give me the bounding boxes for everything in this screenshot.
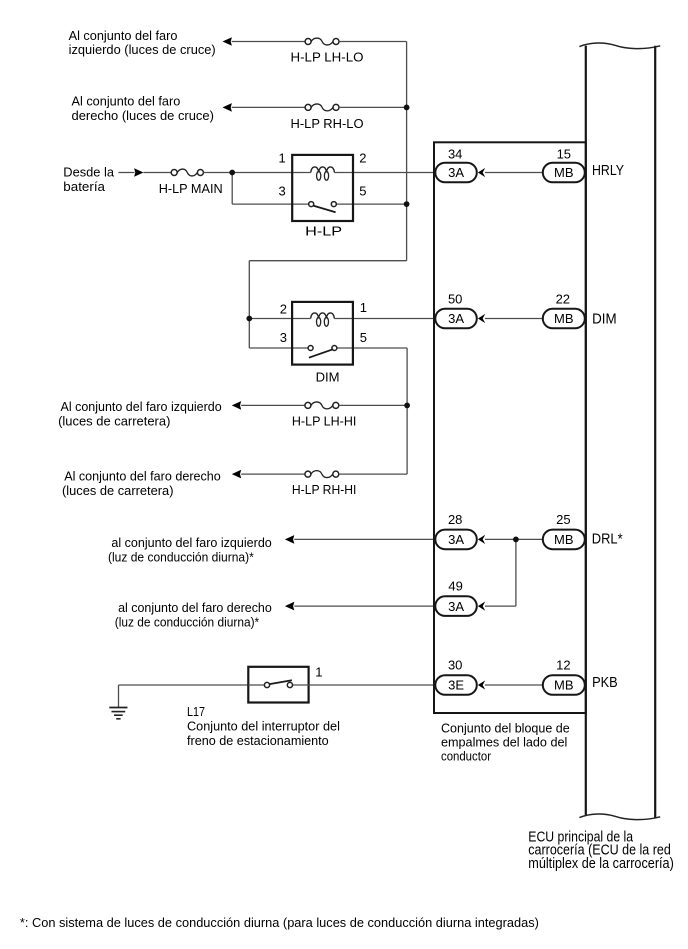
svg-text:Al conjunto del faro: Al conjunto del faro [72, 94, 181, 109]
svg-text:30: 30 [448, 658, 462, 673]
svg-text:22: 22 [556, 292, 570, 307]
svg-text:3: 3 [280, 330, 287, 345]
svg-text:batería: batería [63, 179, 105, 194]
svg-text:al conjunto del faro izquierdo: al conjunto del faro izquierdo [111, 535, 271, 550]
svg-text:2: 2 [280, 301, 287, 316]
svg-text:Al conjunto del faro: Al conjunto del faro [69, 28, 178, 43]
svg-text:2: 2 [359, 150, 366, 165]
svg-text:1: 1 [279, 150, 286, 165]
svg-text:(luces de carretera): (luces de carretera) [62, 483, 174, 498]
svg-text:MB: MB [554, 311, 574, 326]
svg-text:5: 5 [359, 183, 366, 198]
svg-text:3: 3 [279, 183, 286, 198]
svg-text:MB: MB [554, 678, 574, 693]
svg-text:MB: MB [554, 532, 574, 547]
svg-text:H-LP LH-LO: H-LP LH-LO [291, 49, 364, 64]
svg-text:1: 1 [315, 664, 322, 679]
svg-text:DIM: DIM [316, 370, 340, 385]
svg-text:empalmes del lado del: empalmes del lado del [441, 735, 567, 750]
svg-text:25: 25 [556, 512, 570, 527]
svg-text:49: 49 [448, 578, 462, 593]
svg-text:H-LP LH-HI: H-LP LH-HI [292, 413, 357, 428]
svg-text:5: 5 [360, 330, 367, 345]
svg-text:H-LP RH-LO: H-LP RH-LO [291, 116, 364, 131]
svg-text:(luces de carretera): (luces de carretera) [58, 414, 170, 429]
svg-text:28: 28 [448, 512, 462, 527]
svg-text:freno de estacionamiento: freno de estacionamiento [187, 733, 329, 748]
svg-text:Al conjunto del faro izquierdo: Al conjunto del faro izquierdo [61, 399, 222, 414]
svg-text:*: Con sistema de luces de con: *: Con sistema de luces de conducción di… [20, 915, 539, 930]
svg-text:Conjunto del interruptor del: Conjunto del interruptor del [187, 719, 340, 734]
svg-text:al conjunto del faro derecho: al conjunto del faro derecho [118, 600, 272, 615]
svg-text:PKB: PKB [592, 675, 618, 691]
svg-text:50: 50 [448, 292, 462, 307]
svg-text:Al conjunto del faro derecho: Al conjunto del faro derecho [64, 469, 221, 484]
svg-text:1: 1 [360, 300, 367, 315]
svg-text:(luz de conducción diurna)*: (luz de conducción diurna)* [115, 615, 259, 630]
svg-text:izquierdo (luces de cruce): izquierdo (luces de cruce) [69, 42, 216, 57]
svg-text:DIM: DIM [592, 312, 617, 328]
svg-text:Conjunto del bloque de: Conjunto del bloque de [441, 721, 570, 736]
svg-text:3A: 3A [448, 311, 464, 326]
svg-text:HRLY: HRLY [592, 163, 624, 179]
svg-text:H-LP MAIN: H-LP MAIN [159, 181, 223, 196]
svg-text:H-LP RH-HI: H-LP RH-HI [292, 482, 357, 497]
svg-text:15: 15 [557, 146, 571, 161]
svg-text:Desde la: Desde la [63, 165, 114, 180]
svg-text:34: 34 [448, 146, 462, 161]
svg-text:L17: L17 [187, 704, 205, 719]
svg-text:derecho (luces de cruce): derecho (luces de cruce) [72, 108, 214, 123]
svg-text:MB: MB [554, 165, 574, 180]
svg-text:(luz de conducción diurna)*: (luz de conducción diurna)* [108, 549, 254, 564]
svg-text:12: 12 [556, 658, 570, 673]
svg-text:3A: 3A [448, 532, 464, 547]
svg-text:conductor: conductor [441, 748, 492, 763]
svg-text:DRL*: DRL* [592, 532, 623, 548]
svg-text:3E: 3E [448, 678, 464, 693]
svg-text:múltiplex de la carrocería): múltiplex de la carrocería) [528, 855, 674, 872]
svg-text:H-LP: H-LP [305, 223, 342, 238]
svg-text:3A: 3A [448, 599, 464, 614]
svg-text:3A: 3A [448, 165, 464, 180]
